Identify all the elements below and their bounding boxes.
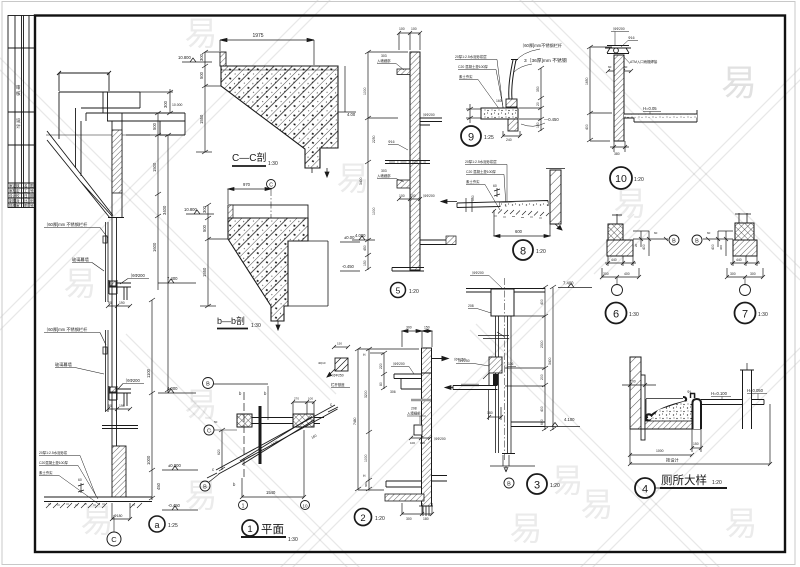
label H=0.05 detail 10 bbox=[643, 106, 661, 114]
furring bar detail 4 bbox=[641, 375, 645, 440]
label 16@200 detail 2 bbox=[391, 361, 414, 374]
post base block detail 9 bbox=[506, 99, 517, 107]
svg-text:设: 设 bbox=[16, 117, 21, 124]
svg-text:4.100: 4.100 bbox=[564, 417, 575, 422]
right level 4.000 C-C bbox=[338, 66, 356, 112]
svg-text:1:25: 1:25 bbox=[484, 135, 494, 141]
svg-text:2300: 2300 bbox=[540, 340, 544, 348]
svg-text:C—C剖: C—C剖 bbox=[232, 151, 266, 164]
wall lines detail 3 bbox=[496, 278, 512, 462]
sloped soffit lines bbox=[47, 108, 113, 218]
svg-text:H=0.100: H=0.100 bbox=[711, 391, 728, 396]
svg-text:7.400: 7.400 bbox=[167, 276, 178, 281]
level 4.100 detail 3 bbox=[544, 423, 580, 427]
wall lines plan bbox=[252, 418, 324, 424]
svg-text:150: 150 bbox=[536, 122, 540, 128]
svg-text:1: 1 bbox=[247, 524, 252, 535]
right dim chain upper bbox=[126, 89, 173, 393]
svg-text:620: 620 bbox=[217, 449, 221, 455]
lower ledge detail 5 bbox=[397, 180, 410, 188]
svg-text:易: 易 bbox=[64, 265, 97, 302]
wall shaft detail 5 bbox=[410, 52, 420, 270]
svg-text:10.800: 10.800 bbox=[178, 55, 191, 60]
level 0.000 bbox=[162, 466, 198, 470]
svg-text:易: 易 bbox=[721, 62, 757, 103]
bottom footing detail 2 bbox=[386, 476, 447, 488]
svg-text:380: 380 bbox=[614, 152, 620, 156]
svg-text:〔6Φ200: 〔6Φ200 bbox=[611, 26, 625, 31]
level line 10.800 bbox=[46, 134, 150, 136]
svg-text:440: 440 bbox=[611, 258, 617, 262]
svg-text:C20 混凝土垫100厚: C20 混凝土垫100厚 bbox=[458, 64, 488, 69]
svg-text:60: 60 bbox=[493, 184, 497, 188]
title circle 7 bbox=[735, 303, 768, 324]
svg-text:易: 易 bbox=[551, 462, 584, 499]
wall top hatched block detail 2 bbox=[422, 348, 432, 373]
svg-text:c: c bbox=[212, 467, 214, 472]
top dim 270 100 plan bbox=[291, 400, 316, 414]
svg-text:300: 300 bbox=[163, 100, 168, 108]
block below slab detail 9 bbox=[508, 119, 518, 131]
riser line detail 6 bbox=[612, 214, 622, 224]
svg-text:B: B bbox=[206, 382, 210, 388]
dim 100 detail 4 bbox=[622, 383, 656, 387]
svg-text:期: 期 bbox=[30, 193, 34, 198]
svg-text:4.00: 4.00 bbox=[347, 112, 356, 117]
title circle 3 bbox=[527, 474, 560, 494]
svg-text:H=0.050: H=0.050 bbox=[747, 388, 764, 393]
svg-text:1:20: 1:20 bbox=[550, 483, 560, 489]
ramp dim labels plan bbox=[271, 434, 318, 447]
svg-text:图: 图 bbox=[24, 204, 28, 208]
svg-text:20厚1:2.5水泥砂浆层: 20厚1:2.5水泥砂浆层 bbox=[465, 159, 497, 164]
axis bubble B detail 6 bbox=[669, 235, 679, 245]
svg-text:10: 10 bbox=[302, 504, 308, 509]
material callouts detail 9 bbox=[455, 54, 505, 117]
svg-text:500: 500 bbox=[199, 71, 204, 79]
right bracket 7.4 level detail 5 bbox=[420, 118, 442, 125]
right dim chain detail 3 bbox=[505, 285, 556, 431]
dim 1975 bbox=[220, 38, 314, 65]
svg-text:90: 90 bbox=[108, 301, 112, 305]
svg-text:比: 比 bbox=[24, 198, 28, 203]
title circle a bbox=[149, 516, 178, 532]
soil hatch detail a bbox=[46, 503, 142, 508]
mid tick detail 3 bbox=[478, 332, 509, 339]
phi16 label bbox=[388, 140, 408, 150]
wall shaft detail 2 bbox=[422, 373, 432, 506]
wall detail 8 bbox=[546, 169, 565, 225]
svg-text:180: 180 bbox=[487, 411, 493, 415]
svg-text:〔6Φ200: 〔6Φ200 bbox=[432, 436, 446, 441]
notch outline b-b bbox=[284, 241, 328, 306]
floor bracket 4.000 bbox=[109, 386, 131, 406]
title block table bbox=[8, 16, 35, 208]
svg-text:100: 100 bbox=[420, 441, 425, 445]
svg-text:100: 100 bbox=[399, 27, 405, 31]
svg-text:1:30: 1:30 bbox=[288, 537, 298, 543]
svg-text:1:20: 1:20 bbox=[375, 516, 385, 522]
dim 180 detail 3 bbox=[487, 390, 535, 472]
svg-text:400: 400 bbox=[642, 244, 646, 250]
svg-text:〔60厚]mm不锈钢栏杆: 〔60厚]mm不锈钢栏杆 bbox=[520, 42, 563, 49]
svg-text:号: 号 bbox=[30, 188, 34, 193]
svg-text:1:25: 1:25 bbox=[168, 523, 178, 529]
svg-text:〔6Φ200: 〔6Φ200 bbox=[421, 112, 435, 117]
left dims detail 7 bbox=[703, 231, 733, 256]
label lower ledge bbox=[377, 169, 404, 182]
railing label lower bbox=[44, 326, 106, 345]
concrete mass b-b bbox=[228, 218, 308, 321]
wall bottom dowels detail 2 bbox=[419, 506, 433, 516]
top slab line C-C bbox=[221, 69, 338, 71]
svg-text:易: 易 bbox=[725, 505, 758, 542]
svg-text:160: 160 bbox=[496, 99, 502, 103]
title detail 4 bbox=[635, 473, 727, 498]
svg-text:150: 150 bbox=[693, 442, 699, 446]
svg-text:208: 208 bbox=[411, 407, 417, 411]
svg-text:150: 150 bbox=[471, 195, 475, 201]
svg-text:号: 号 bbox=[30, 203, 34, 208]
svg-text:300: 300 bbox=[730, 272, 736, 276]
material callouts detail 8 bbox=[465, 159, 507, 210]
svg-text:-0.450: -0.450 bbox=[342, 264, 355, 269]
svg-text:2: 2 bbox=[360, 513, 365, 524]
16@200 label floor 4.000 bbox=[118, 378, 144, 389]
svg-text:B: B bbox=[507, 482, 511, 488]
ramp diagonals plan bbox=[216, 405, 338, 474]
svg-text:20厚1:2.5水泥砂浆: 20厚1:2.5水泥砂浆 bbox=[39, 450, 68, 455]
level -0.450 detail 9 bbox=[521, 117, 559, 126]
top slab b-b bbox=[228, 205, 308, 218]
top plate assembly detail 10 bbox=[605, 46, 631, 54]
svg-text:1000: 1000 bbox=[363, 87, 367, 95]
glass label lower bbox=[55, 361, 104, 374]
svg-text:核: 核 bbox=[16, 90, 21, 97]
dim 100 100 detail 2 bbox=[409, 436, 432, 440]
svg-text:303: 303 bbox=[381, 54, 387, 58]
svg-text:7480: 7480 bbox=[353, 417, 357, 425]
svg-text:90: 90 bbox=[108, 404, 112, 408]
handrail labels bbox=[318, 361, 350, 388]
svg-text:〔6Φ250: 〔6Φ250 bbox=[330, 373, 344, 378]
svg-text:B: B bbox=[672, 239, 676, 245]
railing labels detail 9 bbox=[515, 42, 563, 62]
svg-text:玻璃幕墙: 玻璃幕墙 bbox=[55, 361, 72, 368]
svg-text:平面: 平面 bbox=[261, 524, 284, 536]
svg-text:80: 80 bbox=[379, 382, 383, 386]
svg-text:易: 易 bbox=[337, 160, 370, 197]
svg-text:270: 270 bbox=[294, 397, 299, 401]
base slab hatch detail 4 bbox=[645, 421, 692, 429]
column core detail 6 bbox=[608, 224, 623, 240]
pan bedding stipple detail 4 bbox=[650, 402, 692, 422]
left dim chain detail 5 bbox=[365, 50, 408, 271]
svg-text:Φ16: Φ16 bbox=[388, 140, 395, 144]
dim 60 detail 8 bbox=[494, 188, 500, 197]
bottom dim detail 2 bbox=[400, 503, 434, 516]
left slab detail 3 bbox=[453, 373, 498, 390]
svg-text:易: 易 bbox=[185, 386, 218, 423]
left dim chain C-C bbox=[196, 50, 221, 154]
beam block detail 3 bbox=[491, 289, 514, 316]
squat pan profile detail 4 bbox=[645, 397, 686, 422]
svg-text:10: 10 bbox=[615, 173, 627, 185]
svg-text:400: 400 bbox=[540, 299, 544, 305]
bottom footing detail 5 bbox=[392, 240, 456, 271]
svg-text:306: 306 bbox=[390, 390, 396, 394]
svg-text:1:20: 1:20 bbox=[409, 289, 419, 295]
label SL detail 4 bbox=[687, 390, 695, 398]
parapet cap profile bbox=[59, 92, 185, 139]
dim 1540 plan bbox=[240, 430, 306, 499]
svg-text:450: 450 bbox=[363, 245, 367, 251]
svg-text:3400: 3400 bbox=[162, 205, 167, 215]
axis bubble B detail 7 bbox=[692, 235, 702, 245]
svg-text:8: 8 bbox=[520, 246, 526, 258]
svg-text:60: 60 bbox=[707, 231, 711, 235]
gray break detail 3 bbox=[461, 384, 479, 386]
right dim chain lower bbox=[149, 298, 155, 500]
left dim 620 plan bbox=[219, 428, 225, 471]
dim 970 b-b bbox=[228, 187, 271, 204]
dim 60 20 60 detail 10 bbox=[606, 69, 633, 73]
svg-text:3: 3 bbox=[534, 480, 540, 492]
svg-text:易: 易 bbox=[81, 502, 114, 539]
glass label upper bbox=[72, 256, 104, 271]
svg-text:400: 400 bbox=[624, 272, 630, 276]
column core detail 7 bbox=[735, 223, 754, 240]
title b-b bbox=[217, 315, 261, 329]
svg-text:1600: 1600 bbox=[152, 242, 157, 252]
svg-text:〔6Φ200: 〔6Φ200 bbox=[470, 270, 484, 275]
svg-text:20: 20 bbox=[634, 243, 638, 247]
svg-text:300: 300 bbox=[406, 517, 412, 521]
svg-text:60: 60 bbox=[624, 65, 628, 69]
svg-text:a: a bbox=[154, 520, 159, 530]
left end ticks detail 9 bbox=[466, 104, 481, 123]
svg-text:2250: 2250 bbox=[372, 135, 376, 143]
section line b plan bbox=[243, 392, 245, 480]
level 4.000 detail5 bbox=[352, 236, 375, 240]
wall below grade hatched bbox=[112, 446, 126, 497]
svg-text:审: 审 bbox=[16, 84, 21, 91]
svg-text:B: B bbox=[695, 239, 699, 245]
axis bubble B plan with arrow bbox=[200, 474, 219, 491]
svg-text:1975: 1975 bbox=[252, 33, 263, 39]
svg-text:60: 60 bbox=[654, 231, 658, 235]
wall bottom arrow detail 8 bbox=[555, 224, 562, 230]
level 7.400 detail 3 bbox=[558, 284, 592, 288]
svg-text:工: 工 bbox=[24, 189, 28, 193]
svg-text:〔60厚]mm 不锈钢栏杆: 〔60厚]mm 不锈钢栏杆 bbox=[44, 221, 88, 228]
svg-text:300: 300 bbox=[406, 326, 412, 330]
right labels b-b bbox=[340, 242, 360, 271]
svg-text:1000: 1000 bbox=[364, 454, 368, 462]
svg-text:1:30: 1:30 bbox=[251, 323, 261, 329]
svg-text:b—b剖: b—b剖 bbox=[217, 315, 245, 326]
svg-text:1500: 1500 bbox=[152, 162, 157, 172]
svg-text:校: 校 bbox=[16, 193, 20, 198]
svg-text:易: 易 bbox=[510, 510, 543, 547]
svg-text:150: 150 bbox=[337, 342, 342, 346]
axis bubble B with leader (b-b ref) bbox=[203, 378, 269, 421]
svg-text:7.400: 7.400 bbox=[563, 281, 574, 286]
svg-text:易: 易 bbox=[581, 486, 614, 523]
dark jamb bar plan bbox=[259, 406, 262, 464]
svg-text:4.000: 4.000 bbox=[167, 386, 178, 391]
svg-text:〔6Φ200: 〔6Φ200 bbox=[391, 361, 405, 366]
svg-text:素土夯实: 素土夯实 bbox=[39, 470, 53, 475]
interior floor lines bbox=[102, 426, 138, 429]
svg-text:116: 116 bbox=[508, 362, 514, 366]
svg-text:60: 60 bbox=[78, 478, 82, 482]
hatched anchor block detail 3 bbox=[489, 357, 502, 385]
label 208 wall detail 2 bbox=[407, 407, 426, 425]
ground slab detail a bbox=[44, 497, 152, 502]
svg-text:日: 日 bbox=[24, 194, 28, 198]
glass lines lower bbox=[103, 330, 108, 412]
svg-text:对: 对 bbox=[16, 198, 20, 203]
svg-text:入墙细部: 入墙细部 bbox=[377, 173, 391, 178]
wall shaft upper bbox=[108, 113, 124, 218]
handrail block bbox=[335, 358, 348, 371]
grid bubble detail 7 bbox=[740, 277, 751, 296]
labels H levels detail 4 bbox=[711, 391, 731, 400]
svg-text:150: 150 bbox=[424, 326, 430, 330]
svg-text:〔6Φ200: 〔6Φ200 bbox=[123, 378, 141, 383]
label 16@200 detail 3 bbox=[470, 270, 502, 288]
right dims detail 6 bbox=[633, 231, 668, 256]
bottom slab line detail 3 bbox=[502, 422, 545, 454]
dim 150 handrail bbox=[332, 345, 350, 349]
svg-text:玻璃幕墙: 玻璃幕墙 bbox=[72, 256, 89, 263]
label weld detail 10 bbox=[622, 55, 658, 64]
svg-text:1540: 1540 bbox=[266, 490, 276, 495]
svg-text:1:20: 1:20 bbox=[634, 177, 644, 183]
svg-text:100: 100 bbox=[630, 380, 636, 384]
svg-text:1550: 1550 bbox=[202, 267, 207, 277]
svg-text:1:20: 1:20 bbox=[712, 480, 722, 486]
svg-text:10.800: 10.800 bbox=[184, 207, 197, 212]
svg-text:3200: 3200 bbox=[364, 390, 368, 398]
svg-text:〔60厚]mm 不锈钢栏杆: 〔60厚]mm 不锈钢栏杆 bbox=[44, 326, 88, 333]
svg-text:6: 6 bbox=[613, 309, 619, 321]
svg-text:C: C bbox=[207, 429, 211, 435]
pipe top fitting detail 4 bbox=[691, 394, 695, 399]
left dims detail 2 upper bbox=[370, 351, 387, 390]
left arrow detail 3 bbox=[445, 386, 453, 390]
svg-text:审: 审 bbox=[16, 203, 20, 208]
svg-text:400: 400 bbox=[585, 124, 589, 130]
small parapet block C-C bbox=[220, 52, 226, 66]
svg-text:Φ180: Φ180 bbox=[114, 514, 122, 518]
concrete mass C-C bbox=[221, 66, 338, 168]
left end dims detail 8 bbox=[466, 198, 472, 212]
svg-text:H=0.05: H=0.05 bbox=[643, 106, 657, 111]
svg-text:300: 300 bbox=[603, 272, 609, 276]
slab detail 9 bbox=[481, 108, 518, 119]
dims below detail 7 bbox=[725, 256, 765, 279]
dim 100 100 mid bbox=[397, 197, 422, 201]
bottom dim 180 bbox=[110, 503, 132, 521]
svg-text:180: 180 bbox=[423, 517, 429, 521]
right dim chain detail 9 bbox=[519, 66, 544, 132]
svg-text:400: 400 bbox=[711, 244, 715, 250]
svg-text:40|10: 40|10 bbox=[318, 361, 326, 365]
dim 970 top bbox=[57, 71, 111, 91]
svg-text:1: 1 bbox=[242, 504, 245, 510]
svg-text:60: 60 bbox=[608, 65, 612, 69]
svg-text:600: 600 bbox=[515, 229, 523, 234]
level 10.800 b-b bbox=[186, 210, 214, 214]
dims below detail 6 bbox=[600, 256, 641, 279]
svg-text:厕所大样: 厕所大样 bbox=[661, 473, 707, 487]
svg-text:按设计: 按设计 bbox=[666, 457, 679, 464]
bottom dim 240 detail 9 bbox=[501, 131, 522, 138]
left dim chain b-b bbox=[200, 203, 228, 308]
wall shaft detail 10 bbox=[614, 55, 624, 141]
title circle 2 bbox=[355, 509, 385, 526]
mid slab lines detail 5 bbox=[385, 161, 430, 164]
svg-text:入墙细部: 入墙细部 bbox=[407, 411, 421, 416]
svg-text:1000: 1000 bbox=[372, 207, 376, 215]
dim 90 190 bbox=[106, 304, 132, 308]
svg-text:1:30: 1:30 bbox=[758, 312, 768, 318]
svg-text:3400: 3400 bbox=[548, 357, 552, 365]
svg-text:Φ16: Φ16 bbox=[628, 36, 635, 40]
axis bubble B detail 3 bbox=[504, 478, 514, 488]
svg-text:〔6Φ200: 〔6Φ200 bbox=[128, 273, 146, 278]
svg-text:易: 易 bbox=[614, 185, 647, 222]
svg-text:970: 970 bbox=[243, 182, 251, 187]
svg-text:〔6Φ200: 〔6Φ200 bbox=[421, 193, 435, 198]
grid bubbles plan bbox=[239, 501, 248, 510]
title C-C bbox=[232, 151, 278, 167]
svg-text:C20混凝土垫100厚: C20混凝土垫100厚 bbox=[39, 460, 68, 465]
column 1 plan bbox=[237, 414, 252, 427]
door frame bar detail 4 bbox=[740, 363, 754, 429]
svg-text:303: 303 bbox=[381, 169, 387, 173]
dim 60 ground bbox=[78, 483, 84, 493]
svg-text:定: 定 bbox=[16, 188, 20, 193]
svg-text:易: 易 bbox=[185, 15, 218, 52]
attached block detail 7 bbox=[733, 240, 757, 256]
gray break detail 2 bbox=[411, 399, 431, 401]
left dim chain detail 2 bbox=[355, 347, 419, 491]
notch detail 2 bbox=[414, 425, 422, 435]
title circle 10 bbox=[610, 167, 644, 189]
axis bubble C top of b-b bbox=[267, 180, 276, 189]
svg-text:图: 图 bbox=[30, 184, 34, 188]
svg-text:220: 220 bbox=[379, 363, 383, 369]
svg-text:-0.450: -0.450 bbox=[168, 503, 181, 508]
svg-text:素土夯实: 素土夯实 bbox=[466, 179, 480, 184]
title plan 1 bbox=[241, 520, 298, 543]
right floor slab detail 4 bbox=[701, 400, 764, 405]
svg-text:450: 450 bbox=[156, 482, 161, 490]
svg-text:B: B bbox=[203, 485, 207, 491]
dim 600 detail 8 bbox=[494, 210, 550, 238]
svg-text:208: 208 bbox=[468, 304, 474, 308]
top ledge detail 5 bbox=[397, 69, 410, 75]
svg-text:素土夯实: 素土夯实 bbox=[459, 74, 473, 79]
level 4.000 bbox=[158, 389, 196, 393]
title circle 5 bbox=[391, 283, 419, 298]
ramp slab detail 8 bbox=[457, 201, 548, 208]
left arrow detail 8 bbox=[441, 200, 457, 204]
title circle 6 bbox=[606, 303, 639, 324]
